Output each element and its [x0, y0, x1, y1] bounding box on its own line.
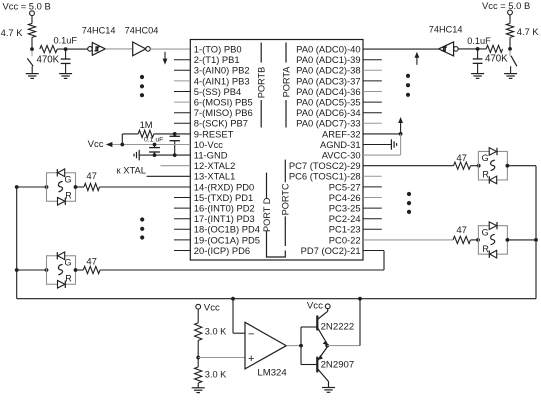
svg-text:9-RESET: 9-RESET: [194, 128, 234, 139]
Vcc arrow (pin 10): [88, 139, 191, 150]
svg-text:R: R: [482, 170, 489, 180]
wire pin 11 GND: [139, 154, 190, 156]
LED indicator DS1 (left upper): [47, 169, 76, 205]
wire: [471, 239, 479, 241]
wire: [31, 16, 33, 24]
svg-text:PORTA: PORTA: [281, 66, 291, 98]
svg-text:PC6 (TOSC1)-28: PC6 (TOSC1)-28: [289, 171, 361, 182]
svg-text:Vcc: Vcc: [88, 139, 104, 150]
arrow up (AREF): [398, 117, 403, 134]
svg-text:PC7 (TOSC2)-29: PC7 (TOSC2)-29: [289, 160, 361, 171]
ground: [504, 74, 517, 79]
svg-text:47: 47: [456, 225, 467, 236]
node junction: [15, 185, 49, 189]
transistor Q1 2N2222 (NPN): [317, 309, 354, 346]
wire: [57, 48, 87, 50]
wire left rail: [16, 187, 18, 299]
svg-text:47: 47: [86, 257, 97, 268]
wire: [76, 186, 85, 188]
svg-text:3-(AIN0) PB2: 3-(AIN0) PB2: [194, 65, 250, 76]
svg-text:PA0 (ADC5)-35: PA0 (ADC5)-35: [296, 97, 360, 108]
svg-text:1-(TO) PB0: 1-(TO) PB0: [194, 44, 242, 55]
svg-text:4-(AIN1) PB3: 4-(AIN1) PB3: [194, 75, 250, 86]
node junction: [506, 164, 510, 168]
svg-text:74HC14: 74HC14: [82, 26, 116, 36]
wire base tie: [301, 327, 317, 365]
svg-text:G: G: [482, 153, 489, 163]
LED indicator DS2 (left lower): [47, 252, 76, 288]
svg-text:Vcc = 5.0 B: Vcc = 5.0 B: [482, 0, 530, 11]
node junction: [231, 297, 362, 301]
transistor Q2 2N2907 (PNP): [317, 347, 354, 387]
wire to pin 1: [150, 48, 190, 50]
wire: [197, 383, 199, 388]
wire pin 13 XTAL1: [147, 175, 191, 177]
resistor 47 (left upper): [84, 171, 100, 191]
svg-text:Vcc: Vcc: [307, 301, 323, 312]
svg-text:PA0 (ADC0)-40: PA0 (ADC0)-40: [296, 44, 360, 55]
wire: [507, 165, 536, 167]
svg-text:5-(SS) PB4: 5-(SS) PB4: [194, 86, 241, 97]
svg-text:AREF-32: AREF-32: [322, 128, 361, 139]
ellipsis dots: [407, 192, 411, 214]
svg-text:R: R: [65, 273, 72, 283]
svg-text:PC3-25: PC3-25: [329, 203, 361, 214]
svg-text:16-(INT0) PD2: 16-(INT0) PD2: [194, 203, 255, 214]
label к XTAL: [117, 165, 146, 176]
U1 pin stubs: [174, 60, 382, 251]
node junction: [64, 47, 68, 51]
svg-text:G: G: [64, 257, 71, 267]
switch S1 (left): [27, 51, 33, 74]
svg-text:6-(MOSI) PB5: 6-(MOSI) PB5: [194, 97, 253, 108]
arrow down (left of PB1): [163, 52, 168, 65]
ground (AGND): [391, 139, 396, 149]
wire pin 12 XTAL2: [160, 165, 190, 167]
wire: [17, 186, 47, 188]
PORTB bracket: [257, 43, 267, 128]
inverter 74HC14 (left): [82, 26, 116, 56]
node junction: [15, 268, 49, 272]
node junction: [30, 47, 34, 51]
wire AGND pin 31: [363, 144, 391, 146]
node junction: [508, 47, 512, 51]
svg-text:PC1-23: PC1-23: [329, 224, 361, 235]
svg-text:к XTAL: к XTAL: [117, 165, 146, 176]
ground: [26, 74, 39, 79]
resistor 47 (left lower): [83, 257, 100, 274]
wire pin 9: [122, 134, 190, 145]
svg-text:+: +: [248, 353, 254, 365]
wire: [31, 37, 33, 49]
svg-text:LM324: LM324: [257, 367, 287, 378]
svg-text:2-(T1) PB1: 2-(T1) PB1: [194, 54, 240, 65]
capacitor 0.1uF (right): [467, 36, 491, 74]
svg-text:PA0 (ADC2)-38: PA0 (ADC2)-38: [296, 65, 360, 76]
wire: [197, 309, 199, 323]
svg-text:18-(OC1B) PD4: 18-(OC1B) PD4: [194, 224, 260, 235]
wire emitters to rail: [327, 299, 360, 346]
svg-text:G: G: [482, 227, 489, 237]
svg-text:47: 47: [86, 171, 97, 182]
wire pin 29: [363, 165, 454, 167]
svg-text:74HC14: 74HC14: [429, 25, 463, 35]
wire: [509, 37, 511, 49]
ground: [192, 388, 205, 393]
svg-text:Vcc: Vcc: [204, 302, 220, 313]
capacitor 0.1uF (left): [54, 36, 78, 74]
resistor 470K (left): [37, 46, 60, 66]
svg-text:PC2-24: PC2-24: [329, 213, 361, 224]
svg-text:10-Vcc: 10-Vcc: [194, 139, 223, 150]
op-amp U2 LM324: [245, 322, 287, 378]
node junction: [74, 268, 78, 272]
wire: [458, 48, 486, 50]
svg-text:13-XTAL1: 13-XTAL1: [194, 171, 236, 182]
wire pin40 to inverter: [363, 48, 438, 50]
U1 pin labels: [194, 44, 361, 256]
svg-text:12-XTAL2: 12-XTAL2: [194, 160, 236, 171]
svg-text:PORTB: PORTB: [257, 67, 267, 98]
svg-text:−: −: [248, 328, 254, 340]
svg-text:8-(SCK) PB7: 8-(SCK) PB7: [194, 118, 248, 129]
inverter 74HC14 (right): [429, 25, 463, 56]
svg-text:17-(INT1) PD3: 17-(INT1) PD3: [194, 213, 255, 224]
power terminal Vcc (transistors): [307, 301, 330, 312]
ellipsis dots: [406, 74, 410, 97]
resistor 4.7 K (right): [506, 23, 539, 37]
wire: [17, 269, 47, 271]
svg-text:470K: 470K: [485, 54, 508, 65]
power terminal Vcc (divider): [196, 302, 220, 313]
wire inverting input: [233, 299, 245, 334]
svg-text:14-(RXD) PD0: 14-(RXD) PD0: [194, 181, 254, 192]
node junction (emitters): [325, 344, 329, 348]
svg-text:PA0 (ADC1)-39: PA0 (ADC1)-39: [296, 54, 360, 65]
node junction: [153, 143, 157, 157]
wire AVCC pin 30: [363, 134, 401, 155]
svg-text:2N2907: 2N2907: [321, 359, 355, 370]
wire right rail: [535, 166, 537, 299]
node junction: [534, 238, 538, 242]
ellipsis dots: [140, 75, 144, 97]
wire: [105, 48, 132, 50]
wire to pin 14: [100, 186, 191, 188]
wire bus: [17, 298, 536, 300]
ground (pin 11): [134, 150, 139, 160]
ground: [59, 74, 72, 79]
resistor 1M: [138, 119, 154, 138]
svg-text:7-(MISO) PB6: 7-(MISO) PB6: [194, 107, 253, 118]
LED indicator DS3 (right upper): [478, 148, 507, 184]
node junction: [399, 132, 403, 136]
svg-text:74HC04: 74HC04: [125, 26, 159, 36]
power terminal Vcc = 5.0 B (left): [3, 0, 51, 15]
svg-text:AVCC-30: AVCC-30: [322, 150, 361, 161]
node junction: [173, 153, 177, 157]
node junction: [477, 164, 481, 168]
svg-text:PA0 (ADC7)-33: PA0 (ADC7)-33: [296, 118, 360, 129]
ground: [471, 74, 484, 79]
svg-text:11-GND: 11-GND: [194, 150, 228, 161]
svg-text:47: 47: [456, 153, 467, 164]
svg-text:15-(TXD) PD1: 15-(TXD) PD1: [194, 192, 253, 203]
wire: [507, 239, 536, 241]
node junction: [74, 185, 78, 189]
PORTD bracket: [262, 173, 286, 257]
node junction: [476, 238, 480, 242]
svg-text:3.0 K: 3.0 K: [205, 327, 227, 337]
microcontroller U1 box: [190, 40, 363, 261]
svg-text:Vcc = 5.0 B: Vcc = 5.0 B: [3, 0, 51, 11]
svg-text:20-(ICP) PD6: 20-(ICP) PD6: [194, 245, 250, 256]
svg-text:PC5-27: PC5-27: [329, 181, 361, 192]
wire: [471, 165, 479, 167]
svg-text:PA0 (ADC3)-37: PA0 (ADC3)-37: [296, 75, 360, 86]
svg-text:R: R: [482, 244, 489, 254]
svg-text:PA0 (ADC6)-34: PA0 (ADC6)-34: [296, 107, 360, 118]
svg-text:0.1uF: 0.1uF: [467, 36, 491, 46]
svg-text:PD7 (OC2)-21: PD7 (OC2)-21: [301, 245, 361, 256]
resistor 47 (right upper): [454, 153, 471, 170]
svg-text:AGND-31: AGND-31: [320, 139, 361, 150]
node junction: [506, 238, 510, 242]
svg-text:3.0 K: 3.0 K: [205, 370, 227, 380]
capacitor (Vcc decoupling): [149, 145, 160, 156]
svg-text:PC4-26: PC4-26: [329, 192, 361, 203]
svg-text:4.7 K: 4.7 K: [1, 27, 24, 38]
arrow up (right of PA pins): [415, 52, 420, 65]
svg-text:2N2222: 2N2222: [321, 321, 355, 332]
svg-text:PC0-22: PC0-22: [329, 234, 361, 245]
node junction: [120, 143, 124, 147]
resistor 3.0 K (upper): [195, 323, 228, 341]
wire: [197, 341, 199, 368]
ellipsis dots: [140, 217, 144, 239]
wire non-inverting input: [198, 357, 245, 359]
wire: [76, 269, 84, 271]
wire PD7 loop (pin 21): [100, 251, 384, 271]
svg-text:1M: 1M: [140, 119, 153, 130]
resistor 3.0 K (lower): [195, 367, 228, 383]
resistor 47 (right lower): [453, 225, 471, 243]
resistor 470K (right): [485, 45, 508, 64]
node junction: [173, 132, 177, 136]
wire pin 22: [363, 239, 453, 241]
svg-text:470K: 470K: [37, 55, 60, 66]
svg-text:PA0 (ADC4)-36: PA0 (ADC4)-36: [296, 86, 360, 97]
svg-text:4.7 K: 4.7 K: [517, 26, 540, 37]
switch S2 (right): [510, 50, 517, 73]
wire op-amp output: [286, 345, 301, 347]
LED indicator DS4 (right lower): [478, 222, 507, 258]
svg-text:0.1 uF: 0.1 uF: [144, 136, 163, 143]
PORTA bracket: [281, 43, 291, 128]
wire: [509, 15, 511, 24]
inverter 74HC04: [125, 26, 159, 56]
svg-text:0.1uF: 0.1uF: [54, 36, 78, 46]
resistor 4.7 K (left): [1, 23, 36, 38]
power terminal Vcc = 5.0 B (right): [482, 0, 530, 15]
wire AREF pin 32: [363, 133, 401, 135]
node junction: [299, 344, 303, 348]
svg-text:PORT D: PORT D: [262, 197, 272, 232]
node junction: [476, 47, 480, 51]
PORTC bracket: [281, 160, 291, 246]
ground (Q2 collector): [322, 388, 335, 393]
svg-text:PORTC: PORTC: [281, 183, 291, 215]
capacitor 0.1 uF (reset): [144, 134, 180, 155]
svg-text:R: R: [65, 190, 72, 200]
svg-text:G: G: [64, 174, 71, 184]
svg-text:19-(OC1A) PD5: 19-(OC1A) PD5: [194, 234, 260, 245]
node junction: [196, 356, 200, 360]
